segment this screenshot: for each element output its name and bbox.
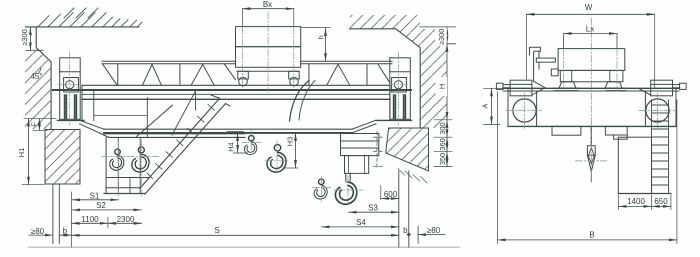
left wall corbel hatched [45,130,80,185]
dimension W [526,3,654,88]
svg-text:b: b [403,226,408,235]
main hook on hoist block [335,182,356,204]
svg-text:1400: 1400 [627,197,645,206]
svg-text:Lx: Lx [586,24,594,33]
centerlines [58,12,412,205]
ladder [652,100,669,194]
svg-text:W: W [585,3,593,12]
platform under girder left / cab top [104,134,245,138]
hatch ticks below right corbel bevel [398,169,427,184]
hook pendant end view [587,126,595,182]
svg-text:300: 300 [438,122,447,134]
walkway truss top chord [102,61,392,64]
right rail beam lines to floor [399,171,409,248]
dimension Lx [564,24,617,48]
cab hook 1 [110,149,124,170]
svg-text:H: H [437,84,446,89]
left wall hatch band [25,40,51,129]
end truck left [60,58,80,120]
right auxiliary hook [314,179,327,199]
buffer left [496,80,544,96]
dimension H3 [283,133,298,168]
svg-text:F: F [29,122,38,127]
dimensions right view [480,3,677,244]
svg-text:H3: H3 [285,137,294,146]
dimension >=300 left [20,27,43,50]
dimension A [480,88,503,124]
dimension S3 [349,204,399,213]
right wall hatch band [420,29,447,128]
dimension S2 [72,201,141,210]
girder bottom flange [104,128,352,130]
svg-text:S: S [214,226,219,235]
svg-text:S2: S2 [96,201,106,210]
blocks under girder [552,126,581,135]
ceiling hatch top-right [350,15,420,29]
buffer right [639,80,687,96]
dimension Bx [242,0,293,26]
dimension S span [72,192,399,248]
cab cage [104,137,150,193]
svg-text:B: B [589,230,594,239]
left wall column lines to floor [53,184,59,244]
svg-text:H4: H4 [226,142,235,151]
svg-text:600: 600 [384,190,398,199]
svg-text:b: b [63,227,68,236]
svg-text:360: 360 [438,138,447,150]
hoist block under girder [341,134,379,182]
svg-text:≥300: ≥300 [20,29,29,45]
ceiling tick far right [420,26,456,28]
dimension h [301,28,330,62]
svg-text:2300: 2300 [117,215,135,224]
dimension 650 [651,195,671,210]
mid main hook [267,145,286,173]
RIGHT VIEW [496,47,686,193]
svg-text:S3: S3 [368,204,378,213]
walkway deck / rail lines [82,84,390,86]
dimension F [24,119,56,131]
centerlines right view [506,18,676,182]
dimension B [498,92,677,244]
dimension >=80 left and b left [29,227,72,236]
svg-text:≥300: ≥300 [437,29,446,45]
right corbel hatched [386,128,429,171]
cab hook 2 [132,147,149,172]
dimension 2300 [108,215,142,228]
dimension b right and >=80 right [403,226,445,237]
dimension H [436,44,448,120]
chain dimensions 300 360 350 [374,120,453,168]
dimension 600 [381,186,399,200]
svg-text:H1: H1 [17,148,26,157]
dimension >=300 right [435,27,455,46]
dimension 1400 [619,195,652,210]
dimension H1 [17,119,44,185]
dimension H4 [226,132,247,153]
svg-text:650: 650 [654,197,668,206]
mid auxiliary hook [245,135,257,154]
hoist drum housing curve [290,81,310,122]
svg-text:Bx: Bx [263,0,272,9]
ceiling line top-left [26,26,139,28]
cab support pole [530,47,559,88]
girder end plates [82,86,390,120]
end truck right [390,58,411,120]
svg-text:≥80: ≥80 [427,226,441,235]
stair railing to cab roof [137,105,173,136]
floor datum line [28,246,460,248]
svg-text:S4: S4 [356,218,366,227]
girder tapered ends [80,120,110,137]
inclined stairs [137,91,230,194]
svg-text:h: h [316,35,325,39]
ceiling hatch top-left [38,8,142,27]
trolley on bridge [236,27,301,86]
dimension S4 [321,218,399,227]
svg-text:S1: S1 [90,191,100,200]
svg-text:≥80: ≥80 [31,227,45,236]
dimension 1100 [72,215,108,224]
girder top flange [82,93,390,95]
bridge girder end view [503,87,679,89]
crane wheels end view [513,99,536,122]
label 45deg [28,69,46,81]
platform box right [618,137,651,193]
dimensions left view [17,0,460,247]
dimension S1 [72,191,118,200]
left wall corner 45 bevel [36,27,51,129]
ceiling line top-right [349,29,420,128]
truss diagonals and posts [103,64,118,85]
svg-text:350: 350 [438,153,447,165]
svg-text:A: A [480,103,489,108]
svg-text:1100: 1100 [81,215,99,224]
trolley end view [554,49,626,91]
